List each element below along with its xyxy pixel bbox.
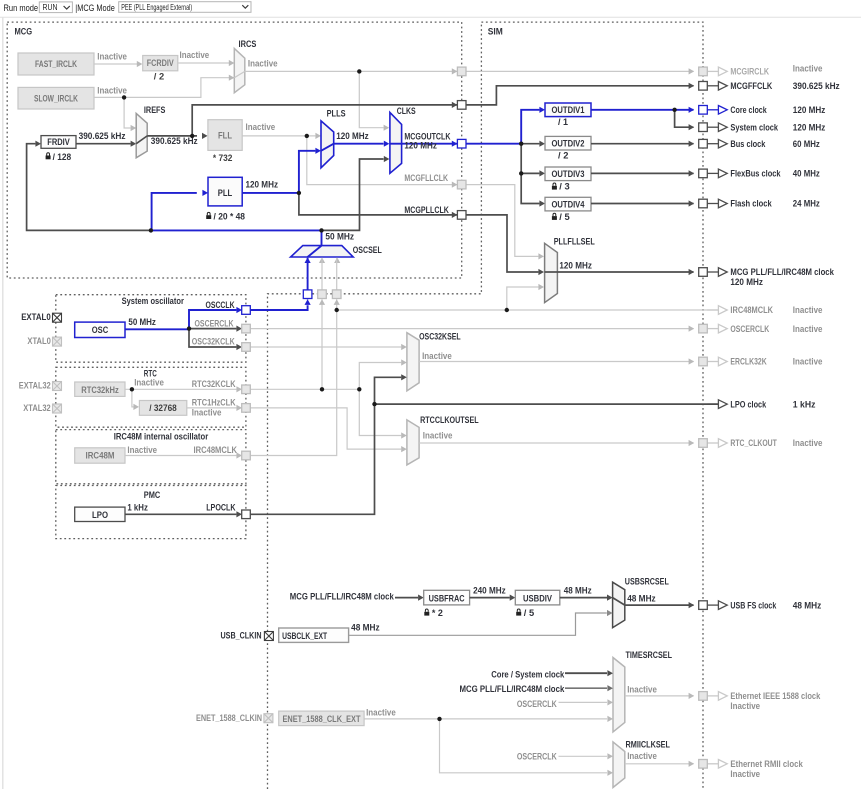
svg-text:RTC_CLKOUT: RTC_CLKOUT bbox=[730, 438, 776, 449]
port OSCSEL input2 at SIM border bbox=[318, 290, 327, 299]
svg-text:OSCERCLK: OSCERCLK bbox=[517, 699, 557, 710]
output triangle FlexBus clock bbox=[707, 172, 718, 174]
fll FLL bbox=[208, 120, 242, 151]
svg-text:System oscillator: System oscillator bbox=[122, 296, 185, 307]
wire PLL to junction bbox=[242, 192, 299, 194]
output triangle Core clock bbox=[707, 109, 718, 111]
ext USBCLK_EXT bbox=[279, 628, 349, 642]
port RTC1HzCLK bbox=[242, 404, 251, 413]
svg-text:48 MHz: 48 MHz bbox=[793, 600, 822, 611]
port MCGOUTCLK at MCG border bbox=[457, 139, 466, 148]
junction OUTDIV feed bbox=[519, 142, 523, 146]
wire MCGPLLCLK down and right bbox=[299, 193, 457, 215]
svg-text:Inactive: Inactive bbox=[627, 751, 657, 762]
svg-text:USB_CLKIN: USB_CLKIN bbox=[221, 631, 262, 642]
wire MCGFLLCLK to PLLFLLSEL input1 bbox=[466, 185, 538, 257]
wire PLLS to CLKS bbox=[334, 143, 384, 145]
oscillator FAST_IRCLK bbox=[18, 53, 94, 75]
svg-text:CLKS: CLKS bbox=[397, 106, 416, 117]
svg-text:TIMESRCSEL: TIMESRCSEL bbox=[626, 650, 673, 661]
pin XTAL32 bbox=[53, 404, 62, 413]
wire down to OUTDIV3/4 bbox=[521, 144, 539, 174]
svg-text:LPO: LPO bbox=[92, 510, 108, 521]
pin XTAL0 bbox=[53, 337, 62, 346]
mux PLLS bbox=[321, 121, 334, 168]
wire to OUTDIV2 bbox=[521, 143, 539, 145]
panel left edge bbox=[2, 17, 4, 789]
pll PLL bbox=[208, 177, 242, 206]
svg-text:120 MHz: 120 MHz bbox=[730, 277, 763, 288]
svg-text:/ 5: / 5 bbox=[559, 212, 570, 223]
port System clock bbox=[699, 123, 708, 132]
wire Ethernet IEEE 1588 out bbox=[625, 695, 694, 697]
svg-text:PLLFLLSEL: PLLFLLSEL bbox=[554, 236, 595, 247]
svg-text:PLLS: PLLS bbox=[327, 108, 346, 119]
wire MCGFLLCLK down and right bbox=[307, 136, 457, 185]
mux TIMESRCSEL bbox=[613, 658, 625, 732]
RTC dashed box bbox=[56, 367, 246, 427]
wire FAST_IRCLK to FCRDIV bbox=[94, 63, 137, 65]
svg-text:USB FS clock: USB FS clock bbox=[730, 600, 776, 611]
wire RTC1HzCLK to RTCCLKOUTSEL input2 bbox=[250, 408, 401, 449]
port Bus clock bbox=[699, 139, 708, 148]
svg-text:120 MHz: 120 MHz bbox=[793, 122, 826, 133]
mux RTCCLKOUTSEL bbox=[407, 420, 419, 465]
svg-text:120 MHz: 120 MHz bbox=[246, 180, 279, 191]
wire OSC32KCLK to OSC32KSEL input1 bbox=[250, 346, 401, 348]
svg-text:OSCCLK: OSCCLK bbox=[206, 300, 235, 311]
port MCGFFCLK at MCG border bbox=[457, 101, 466, 110]
divider OUTDIV4 bbox=[545, 197, 591, 211]
wire OSCSEL output to FRDIV bbox=[27, 144, 151, 231]
toolbar separator bbox=[0, 16, 861, 18]
mux RMIICLKSEL bbox=[613, 742, 625, 788]
wire to OUTDIV4 bbox=[521, 173, 539, 203]
mux IREFS bbox=[136, 113, 147, 157]
wire MCGIRCLK across SIM bbox=[466, 70, 694, 72]
svg-text:MCGPLLCLK: MCGPLLCLK bbox=[404, 205, 449, 216]
wire OUTDIV1 to Core clock bbox=[591, 109, 694, 111]
wire LPO to OSC32KSEL input3 bbox=[375, 377, 402, 404]
lock and label / 5 (OUTDIV4) bbox=[552, 213, 557, 220]
mux OSC32KSEL bbox=[407, 333, 419, 391]
svg-text:MCGIRCLK: MCGIRCLK bbox=[730, 67, 769, 78]
svg-text:ENET_1588_CLK_EXT: ENET_1588_CLK_EXT bbox=[283, 714, 361, 725]
svg-text:RTC32KCLK: RTC32KCLK bbox=[192, 379, 236, 390]
wire to OUTDIV1 bbox=[521, 110, 539, 144]
svg-text:SLOW_IRCLK: SLOW_IRCLK bbox=[34, 94, 78, 105]
svg-text:/ 5: / 5 bbox=[524, 608, 535, 619]
svg-text:Inactive: Inactive bbox=[730, 769, 760, 780]
svg-text:120 MHz: 120 MHz bbox=[404, 141, 437, 152]
junction RTC32kHz out bbox=[130, 387, 134, 391]
svg-text:48 MHz: 48 MHz bbox=[627, 594, 656, 605]
mux USBSRCSEL bbox=[613, 582, 625, 627]
wire RTC1HzCLK out bbox=[187, 407, 237, 409]
svg-text:Inactive: Inactive bbox=[248, 59, 278, 70]
SIM region dashed border (L-shape) bbox=[268, 22, 704, 789]
svg-text:LPO clock: LPO clock bbox=[730, 399, 766, 410]
svg-text:RMIICLKSEL: RMIICLKSEL bbox=[626, 739, 671, 750]
wire RTC32kHz to /32768 bbox=[132, 389, 134, 407]
port RTC_CLKOUT at SIM border bbox=[699, 439, 708, 448]
wire PLLFLLSEL to MCG PLL/FLL output bbox=[557, 271, 693, 273]
svg-text:Bus clock: Bus clock bbox=[730, 139, 766, 150]
svg-text:Inactive: Inactive bbox=[422, 351, 452, 362]
divider / 32768 bbox=[139, 401, 186, 416]
svg-text:FCRDIV: FCRDIV bbox=[147, 58, 174, 69]
svg-text:50 MHz: 50 MHz bbox=[128, 317, 156, 328]
junction IRC48MCLK/PLLFLLSEL bbox=[505, 308, 509, 312]
wire IRC48MCLK up to PLLFLLSEL input3 bbox=[507, 287, 539, 310]
junction OUTDIV3/4 bbox=[519, 171, 523, 175]
wire OSCERCLK to RMIICLKSEL input1 bbox=[559, 755, 608, 757]
svg-text:IRC48MCLK: IRC48MCLK bbox=[194, 445, 238, 456]
lock and label / 20 * 48 (PLL value) bbox=[206, 212, 211, 219]
wire MCGOUTCLK to OUTDIV junction bbox=[466, 143, 521, 145]
toolbar run-mode select bbox=[39, 2, 72, 13]
wire USBDIV to USBSRCSEL bbox=[560, 597, 607, 599]
port MCGPLLCLK at MCG border bbox=[457, 211, 466, 220]
port Ethernet RMII at SIM border bbox=[699, 760, 708, 769]
svg-text:Inactive: Inactive bbox=[180, 50, 210, 61]
junction MCGIRCLK to CLKS bbox=[357, 69, 361, 73]
svg-text:Inactive: Inactive bbox=[192, 407, 222, 418]
port OSCCLK at SIM border bbox=[303, 290, 312, 299]
junction IRC48MCLK row bbox=[335, 308, 339, 312]
mux PLLFLLSEL bbox=[545, 243, 558, 302]
pin USB_CLKIN bbox=[264, 632, 273, 641]
wire CLKS out MCGOUTCLK bbox=[402, 143, 457, 145]
wire OSCERCLK from junction bbox=[189, 328, 236, 330]
wire RTC32kHz out bbox=[125, 388, 236, 390]
wire ENET ext to RMIICLKSEL input2 bbox=[440, 719, 608, 773]
svg-text:MCGFLLCLK: MCGFLLCLK bbox=[404, 173, 448, 184]
svg-text:RTCCLKOUTSEL: RTCCLKOUTSEL bbox=[420, 415, 479, 426]
wire ENET_1588_CLK_EXT to TIMESRCSEL input4 bbox=[364, 718, 607, 720]
lock and label / 5 (USBDIV) bbox=[516, 609, 521, 616]
svg-text:1 kHz: 1 kHz bbox=[793, 399, 816, 410]
junction RTC32KCLK/OSCSEL bbox=[320, 387, 324, 391]
port Core clock bbox=[699, 106, 708, 115]
wire SLOW_IRCLK to IREFS bbox=[124, 97, 131, 128]
junction OSCSEL out bbox=[319, 228, 323, 232]
svg-text:PLL: PLL bbox=[218, 188, 233, 199]
wire to USBFRAC bbox=[395, 597, 418, 599]
svg-text:Inactive: Inactive bbox=[366, 707, 396, 718]
svg-text:40 MHz: 40 MHz bbox=[793, 169, 820, 180]
mux IRCS bbox=[234, 48, 245, 92]
junction OSCSEL-out left bbox=[149, 228, 153, 232]
wire IRC48MCLK up to OSCSEL input3 bbox=[336, 299, 338, 310]
junction Core/System bbox=[672, 108, 676, 112]
wire SLOW_IRCLK out bbox=[94, 78, 229, 98]
wire OUTDIV3 to FlexBus clock bbox=[591, 172, 694, 174]
wire LPOCLK to LPO row bbox=[250, 404, 374, 514]
wire FCRDIV to IRCS bbox=[178, 62, 229, 64]
output triangle Ethernet RMII clock bbox=[707, 763, 718, 765]
svg-text:1 kHz: 1 kHz bbox=[127, 503, 148, 514]
svg-text:LPOCLK: LPOCLK bbox=[206, 503, 235, 514]
svg-text:Inactive: Inactive bbox=[793, 357, 823, 368]
svg-text:Inactive: Inactive bbox=[127, 445, 157, 456]
System oscillator dashed box bbox=[56, 295, 246, 363]
wire OSCERCLK long bbox=[250, 328, 693, 330]
wire IREFS to FLL bbox=[147, 135, 197, 137]
svg-text:Inactive: Inactive bbox=[97, 52, 127, 63]
svg-text:EXTAL32: EXTAL32 bbox=[19, 381, 51, 392]
wire OSCSEL output to PLL bbox=[152, 193, 197, 231]
wire ERCLK32K out bbox=[419, 361, 693, 363]
port MCGFLLCLK at MCG border bbox=[457, 180, 466, 189]
wire FLL to PLLS input1 bbox=[242, 135, 315, 137]
output triangle System clock bbox=[707, 126, 718, 128]
svg-text:50 MHz: 50 MHz bbox=[325, 232, 354, 243]
IRC48M internal oscillator dashed box bbox=[56, 430, 246, 484]
divider USBDIV bbox=[515, 590, 560, 605]
wire LPO clock row bbox=[375, 403, 719, 405]
MCG region dashed box bbox=[7, 22, 462, 278]
wire USBFRAC to USBDIV bbox=[470, 597, 510, 599]
output triangle OSCERCLK bbox=[707, 328, 718, 330]
port ERCLK32K at SIM border bbox=[699, 357, 708, 366]
divider USBFRAC bbox=[424, 590, 470, 605]
wire OSC32KCLK from junction bbox=[189, 329, 236, 347]
output triangle Flash clock bbox=[707, 203, 718, 205]
port MCGIRCLK at SIM border bbox=[699, 67, 708, 76]
osc IRC48M bbox=[75, 448, 125, 463]
toolbar mcg-mode select bbox=[119, 2, 251, 13]
wire OUTDIV2 to Bus clock bbox=[591, 143, 694, 145]
port MCGFFCLK at SIM border bbox=[699, 82, 708, 91]
junction OSC out bbox=[187, 326, 191, 330]
svg-text:OUTDIV2: OUTDIV2 bbox=[552, 139, 585, 150]
osc RTC32kHz bbox=[75, 382, 125, 396]
svg-text:390.625 kHz: 390.625 kHz bbox=[79, 131, 126, 142]
port RTC32KCLK bbox=[242, 385, 251, 394]
svg-text:/ 128: / 128 bbox=[53, 152, 72, 163]
svg-text:OSCERCLK: OSCERCLK bbox=[517, 751, 557, 762]
svg-text:SIM: SIM bbox=[488, 27, 503, 38]
wire OSCSEL output node bbox=[321, 230, 323, 245]
wire RTC32KCLK right bbox=[250, 388, 359, 390]
svg-text:Inactive: Inactive bbox=[793, 324, 823, 335]
svg-text:Inactive: Inactive bbox=[627, 684, 657, 695]
svg-text:OSCERCLK: OSCERCLK bbox=[730, 324, 769, 335]
svg-text:* 732: * 732 bbox=[213, 153, 233, 164]
svg-text:USBDIV: USBDIV bbox=[523, 594, 552, 605]
wire MCGFFCLK up and right bbox=[192, 105, 457, 136]
svg-text:48 MHz: 48 MHz bbox=[564, 586, 592, 597]
svg-text:USBSRCSEL: USBSRCSEL bbox=[625, 576, 669, 587]
svg-text:* 2: * 2 bbox=[432, 608, 443, 619]
osc OSC bbox=[75, 322, 125, 337]
wire OSCCLK to OSCSEL input1 bbox=[250, 305, 307, 310]
svg-text:MCG: MCG bbox=[15, 27, 33, 38]
output triangle MCGFFCLK bbox=[707, 85, 718, 87]
pmc LPO bbox=[75, 507, 125, 521]
lock and label * 2 (USBFRAC) bbox=[424, 609, 429, 616]
svg-text:Core clock: Core clock bbox=[730, 105, 767, 116]
junction RTC32KCLK/OSC32KSEL bbox=[357, 387, 361, 391]
output triangle MCGIRCLK bbox=[707, 70, 718, 72]
port Ethernet IEEE 1588 at SIM border bbox=[699, 692, 708, 701]
output triangle USB FS clock bbox=[707, 604, 718, 606]
pin ENET_1588_CLKIN bbox=[264, 714, 273, 723]
svg-text:120 MHz: 120 MHz bbox=[336, 131, 369, 142]
wire USB FS clock bbox=[625, 604, 694, 606]
svg-text:/ 2: / 2 bbox=[154, 71, 164, 82]
wire RTC_CLKOUT out bbox=[419, 442, 693, 444]
mux CLKS bbox=[390, 112, 402, 173]
svg-text:120 MHz: 120 MHz bbox=[793, 105, 826, 116]
junction SLOW_IRCLK/IREFS bbox=[122, 95, 126, 99]
svg-text:Inactive: Inactive bbox=[793, 305, 823, 316]
junction ENET ext bbox=[437, 717, 441, 721]
wire RTC32KCLK down to RTCCLKOUTSEL input1 bbox=[359, 389, 401, 435]
svg-text:Inactive: Inactive bbox=[423, 431, 453, 442]
divider OUTDIV1 bbox=[545, 103, 591, 117]
svg-text:XTAL0: XTAL0 bbox=[27, 336, 51, 347]
wire IRC48MCLK up bbox=[250, 310, 336, 456]
svg-text:PEE (PLL Engaged External): PEE (PLL Engaged External) bbox=[121, 3, 192, 12]
svg-text:RUN: RUN bbox=[43, 2, 58, 12]
wire FRDIV to IREFS bbox=[76, 143, 131, 145]
svg-text:Inactive: Inactive bbox=[793, 64, 823, 75]
wire OSCSEL-out horizontal blue bbox=[151, 229, 322, 231]
port Flash clock bbox=[699, 199, 708, 208]
wire PLL out up to PLLS input2 bbox=[299, 151, 316, 193]
wire RTC32KCLK up to OSC32KSEL input2 bbox=[359, 363, 401, 390]
junction PLL-out bbox=[297, 191, 301, 195]
svg-text:390.625 kHz: 390.625 kHz bbox=[793, 81, 840, 92]
lock and label / 128 (FRDIV value) bbox=[46, 153, 51, 160]
PMC dashed box bbox=[56, 486, 246, 539]
port MCGIRCLK at MCG border bbox=[457, 67, 466, 76]
wire OSCSEL to CLKS input3 bbox=[322, 159, 384, 230]
port LPOCLK bbox=[242, 510, 251, 519]
port MCG PLL/FLL/IRC48M clock bbox=[699, 268, 708, 277]
wire Ethernet RMII out bbox=[625, 763, 694, 765]
divider OUTDIV2 bbox=[545, 136, 591, 150]
wire MCGIRCLK branch to CLKS input1 bbox=[359, 71, 383, 127]
output triangle ERCLK32K bbox=[707, 361, 718, 363]
svg-text:24 MHz: 24 MHz bbox=[793, 199, 820, 210]
svg-text:/ 1: / 1 bbox=[558, 117, 569, 128]
wire Core/System to TIMESRCSEL input1 bbox=[565, 672, 607, 674]
svg-text:120 MHz: 120 MHz bbox=[559, 260, 592, 271]
svg-text:48 MHz: 48 MHz bbox=[351, 623, 380, 634]
wire OUTDIV4 to Flash clock bbox=[591, 203, 694, 205]
output triangle IRC48MCLK bbox=[707, 309, 718, 311]
wire MCG PLL to TIMESRCSEL input2 bbox=[565, 687, 607, 689]
svg-text:OSC32KSEL: OSC32KSEL bbox=[419, 332, 461, 343]
wire IRC48M out bbox=[125, 455, 236, 457]
ext ENET_1588_CLK_EXT bbox=[279, 711, 364, 726]
svg-text:OSCSEL: OSCSEL bbox=[353, 245, 382, 256]
svg-text:PMC: PMC bbox=[144, 490, 161, 501]
svg-text:FlexBus clock: FlexBus clock bbox=[730, 169, 781, 180]
svg-text:USBFRAC: USBFRAC bbox=[429, 594, 465, 605]
svg-text:IRC48M: IRC48M bbox=[86, 451, 115, 462]
svg-text:Inactive: Inactive bbox=[97, 85, 127, 96]
svg-text:240 MHz: 240 MHz bbox=[473, 586, 506, 597]
wire USBCLK_EXT to USBSRCSEL input2 bbox=[349, 613, 607, 635]
svg-text:OUTDIV1: OUTDIV1 bbox=[552, 105, 586, 116]
svg-text:ENET_1588_CLKIN: ENET_1588_CLKIN bbox=[196, 713, 262, 724]
svg-text:Inactive: Inactive bbox=[134, 377, 164, 388]
wire MCGFFCLK to SIM edge bbox=[466, 86, 694, 105]
svg-text:MCG PLL/FLL/IRC48M clock: MCG PLL/FLL/IRC48M clock bbox=[460, 684, 565, 695]
port IRC48MCLK bbox=[242, 451, 251, 460]
output triangle RTC_CLKOUT bbox=[707, 442, 718, 444]
output triangle Ethernet IEEE 1588 clock bbox=[707, 695, 718, 697]
svg-text:ERCLK32K: ERCLK32K bbox=[730, 357, 766, 368]
svg-text:RTC32kHz: RTC32kHz bbox=[81, 385, 119, 396]
port OSC32KCLK bbox=[242, 343, 251, 352]
output triangle Bus clock bbox=[707, 143, 718, 145]
svg-text:/ 20 * 48: / 20 * 48 bbox=[214, 211, 246, 222]
port OSCCLK bbox=[242, 306, 251, 315]
svg-text:OUTDIV3: OUTDIV3 bbox=[552, 169, 585, 180]
divider FRDIV bbox=[41, 136, 76, 149]
output triangle LPO clock bbox=[707, 403, 718, 405]
junction FLL-out/MCGFLLCLK bbox=[305, 134, 309, 138]
wire System clock branch bbox=[675, 110, 694, 127]
junction LPO row bbox=[372, 402, 376, 406]
svg-text:OSC32KCLK: OSC32KCLK bbox=[192, 337, 235, 348]
port OSCERCLK at SIM border bbox=[699, 324, 708, 333]
svg-text:390.625 kHz: 390.625 kHz bbox=[151, 136, 198, 147]
svg-text:Flash clock: Flash clock bbox=[730, 199, 772, 210]
wire MCGIRCLK from IRCS to SIM edge bbox=[245, 70, 457, 72]
junction IREFS-out/MCGFFCLK bbox=[190, 134, 194, 138]
svg-text:USBCLK_EXT: USBCLK_EXT bbox=[282, 631, 327, 642]
wire IRC48MCLK row right bbox=[337, 309, 719, 311]
svg-text:Core / System clock: Core / System clock bbox=[491, 669, 565, 680]
wire RTC32KCLK up to OSCSEL input2 bbox=[321, 299, 323, 389]
svg-text:IRC48M internal oscillator: IRC48M internal oscillator bbox=[114, 432, 209, 443]
wire OSC out blue bbox=[125, 310, 236, 329]
divider FCRDIV bbox=[143, 56, 178, 71]
svg-text:EXTAL0: EXTAL0 bbox=[21, 312, 51, 323]
mux OSCSEL bbox=[291, 246, 354, 257]
output triangle MCG PLL/FLL/IRC48M clock bbox=[707, 271, 718, 273]
svg-text:Inactive: Inactive bbox=[730, 701, 760, 712]
svg-text:Inactive: Inactive bbox=[246, 122, 276, 133]
svg-text:FLL: FLL bbox=[218, 131, 232, 142]
svg-text:/ 2: / 2 bbox=[558, 151, 568, 162]
pin EXTAL0 bbox=[53, 313, 62, 322]
svg-text:/ 3: / 3 bbox=[559, 182, 569, 193]
svg-text:FAST_IRCLK: FAST_IRCLK bbox=[35, 59, 77, 70]
svg-text:IRC48MCLK: IRC48MCLK bbox=[730, 305, 773, 316]
svg-text:IRCS: IRCS bbox=[239, 39, 257, 50]
svg-text:FRDIV: FRDIV bbox=[47, 137, 70, 148]
port OSCERCLK bbox=[242, 324, 251, 333]
svg-text:IREFS: IREFS bbox=[144, 105, 166, 116]
svg-text:60 MHz: 60 MHz bbox=[793, 139, 820, 150]
svg-text:XTAL32: XTAL32 bbox=[23, 403, 50, 414]
svg-text:|MCG Mode: |MCG Mode bbox=[75, 3, 115, 14]
wire LPO out bbox=[125, 513, 236, 515]
svg-text:System clock: System clock bbox=[730, 122, 778, 133]
port FlexBus clock bbox=[699, 169, 708, 178]
mux OSCSEL input arrows bbox=[305, 257, 311, 263]
port USB FS clock bbox=[699, 601, 708, 610]
port OSCSEL input3 at SIM border bbox=[332, 290, 341, 299]
svg-text:OSCERCLK: OSCERCLK bbox=[195, 318, 234, 329]
